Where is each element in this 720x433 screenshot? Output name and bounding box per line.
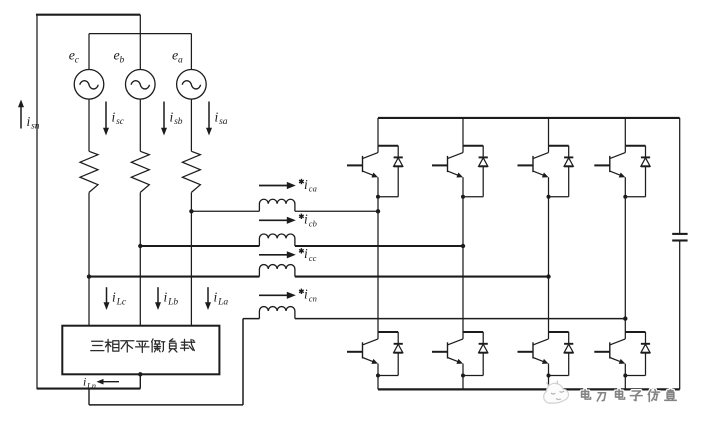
inductor Lc <box>259 265 295 277</box>
wire: leg 2 rail upper <box>462 118 464 146</box>
inductor Ln <box>259 307 295 319</box>
svg-text:i: i <box>170 110 174 125</box>
label i_sb <box>170 110 183 128</box>
label *i_cn <box>299 287 317 304</box>
label i_Ln <box>83 375 96 391</box>
transistor Q4 <box>432 332 483 376</box>
wire: bottom neutral run <box>89 404 243 406</box>
arrow i_sb (down) <box>163 102 165 130</box>
transistor Q8 <box>594 332 645 376</box>
arrow i_sc (down) <box>105 102 107 130</box>
arrow i_cb <box>259 219 288 221</box>
label i_sn <box>27 114 40 132</box>
load box text: 三相不平衡负载 <box>91 341 104 350</box>
node emitter junction leg Q3 <box>461 195 465 199</box>
svg-text:sa: sa <box>219 117 228 127</box>
label i_Lb <box>164 290 179 308</box>
wire: phase c to leg <box>295 276 549 278</box>
arrow i_cc <box>259 254 288 256</box>
wire: leg 4 rail upper <box>624 118 626 146</box>
svg-text:i: i <box>304 246 308 261</box>
wire: DC bus - <box>378 388 680 390</box>
wire: source c upper lead <box>88 99 90 151</box>
svg-text:Lc: Lc <box>116 297 127 307</box>
resistor Ra <box>182 151 200 192</box>
svg-text:i: i <box>27 114 31 129</box>
label e_a <box>172 49 183 66</box>
wire: leg 4 mid rail <box>624 197 626 332</box>
node leg b <box>461 244 465 248</box>
wire: neutral drop <box>88 389 90 405</box>
svg-text:i: i <box>83 375 86 389</box>
wire: leg 1 to bus - <box>377 376 379 390</box>
wire: leg 2 to bus - <box>462 376 464 390</box>
wire: cap branch lower <box>679 241 681 390</box>
svg-text:i: i <box>164 290 168 305</box>
svg-text:i: i <box>112 290 116 305</box>
label i_sa <box>215 110 228 128</box>
diode D4 <box>463 332 488 376</box>
svg-text:La: La <box>217 297 228 307</box>
svg-text:sn: sn <box>31 122 40 132</box>
svg-text:i: i <box>304 212 308 227</box>
node emitter junction leg Q6 <box>547 374 551 378</box>
label e_b <box>114 49 125 66</box>
wire: phase a to leg <box>295 210 378 212</box>
node phase b tap <box>138 244 142 248</box>
node emitter junction leg Q8 <box>623 374 627 378</box>
AC source e_a <box>177 70 207 100</box>
node emitter junction leg Q4 <box>461 374 465 378</box>
svg-text:a: a <box>178 55 183 65</box>
AC source e_c <box>74 70 104 100</box>
node phase a tap <box>189 209 193 213</box>
wire: leg 4 to bus - <box>624 376 626 390</box>
arrow i_Lb (down) <box>157 287 159 304</box>
transistor Q7 <box>594 146 645 197</box>
arrow i_Ln (left) <box>102 381 119 383</box>
diode D6 <box>549 332 574 376</box>
arrow i_La (down) <box>207 287 209 304</box>
load box: three-phase unbalanced load <box>62 326 219 375</box>
wire: neutral return to rail <box>37 388 140 390</box>
resistor Rb <box>131 151 149 192</box>
svg-text:Ln: Ln <box>86 381 96 391</box>
node emitter junction leg Q7 <box>623 195 627 199</box>
svg-text:sb: sb <box>174 117 183 127</box>
label i_La <box>214 290 229 308</box>
svg-text:i: i <box>304 177 308 192</box>
svg-text:i: i <box>304 287 308 302</box>
wire: leg 1 rail upper <box>377 118 379 146</box>
wire: e_c / e_a common top <box>89 33 191 35</box>
arrow i_cn <box>259 294 288 296</box>
svg-text:i: i <box>112 110 116 125</box>
wire: leg 2 mid rail <box>462 197 464 332</box>
wire: e_b top lead <box>139 15 141 70</box>
node phase c tap <box>87 274 91 278</box>
label *i_cb <box>299 212 317 229</box>
arrow i_Lc (down) <box>106 287 108 304</box>
svg-text:sc: sc <box>116 117 125 127</box>
watermark text: 电力电子仿真 <box>582 390 591 400</box>
wire: neutral riser <box>242 319 244 405</box>
arrow i_ca <box>259 185 288 187</box>
wire: top neutral bus (thick) <box>36 14 140 16</box>
svg-text:cc: cc <box>309 253 317 263</box>
diode D3 <box>463 146 488 197</box>
wire: source a lower lead to load <box>190 193 192 326</box>
diode D8 <box>625 332 650 376</box>
transistor Q3 <box>432 146 483 197</box>
wire: leg 3 mid rail <box>548 197 550 332</box>
inductor La <box>259 199 295 211</box>
transistor Q6 <box>518 332 569 376</box>
wire: source a upper lead <box>190 99 192 151</box>
wire: DC bus + <box>378 117 680 119</box>
wire: load neutral down <box>139 374 141 388</box>
label *i_ca <box>299 177 317 194</box>
wire: phase a to filter <box>191 210 259 212</box>
wire: cap branch upper <box>679 118 681 234</box>
svg-text:b: b <box>120 55 125 65</box>
transistor Q1 <box>347 146 398 197</box>
wire: phase b to filter <box>140 245 259 247</box>
wire: source b upper lead <box>139 99 141 151</box>
wire: leg 3 to bus - <box>548 376 550 390</box>
AC source e_b <box>126 70 156 100</box>
wire: phase c to filter <box>89 276 259 278</box>
wire: source b lower lead to load <box>139 193 141 326</box>
transistor Q2 <box>347 332 398 376</box>
resistor Rc <box>80 151 98 192</box>
node emitter junction leg Q5 <box>547 195 551 199</box>
label *i_cc <box>299 246 317 263</box>
wire: e_c top lead <box>88 34 90 70</box>
wire: phase b to leg <box>295 245 463 247</box>
diode D5 <box>549 146 574 197</box>
svg-text:ca: ca <box>309 184 317 194</box>
arrow i_sa (down) <box>208 102 210 130</box>
node leg c <box>546 274 550 278</box>
wire: neutral to leg 4 <box>295 318 625 320</box>
svg-text:i: i <box>214 290 218 305</box>
watermark logo <box>544 381 569 404</box>
label i_sc <box>112 110 125 128</box>
svg-text:cb: cb <box>309 218 317 228</box>
transistor Q5 <box>518 146 569 197</box>
wire: neutral to filter <box>243 318 259 320</box>
wire: leg 1 mid rail <box>377 197 379 332</box>
label e_c <box>69 49 80 66</box>
node emitter junction leg Q2 <box>376 374 380 378</box>
node leg n <box>623 316 627 320</box>
diode D7 <box>625 146 650 197</box>
wire: e_a top lead <box>190 34 192 70</box>
wire: leg 3 rail upper <box>548 118 550 146</box>
svg-text:cn: cn <box>309 293 317 303</box>
capacitor C <box>672 233 687 235</box>
node leg a <box>376 209 380 213</box>
inductor Lb <box>259 234 295 246</box>
arrow i_sn (up) <box>20 106 22 129</box>
diode D1 <box>378 146 403 197</box>
wire: left neutral rail <box>36 15 38 390</box>
node emitter junction leg Q1 <box>376 195 380 199</box>
wire: source c lower lead to load <box>88 193 90 326</box>
diode D2 <box>378 332 403 376</box>
node load neutral <box>138 372 142 376</box>
svg-text:i: i <box>215 110 219 125</box>
svg-text:Lb: Lb <box>167 297 178 307</box>
label i_Lc <box>112 290 127 308</box>
